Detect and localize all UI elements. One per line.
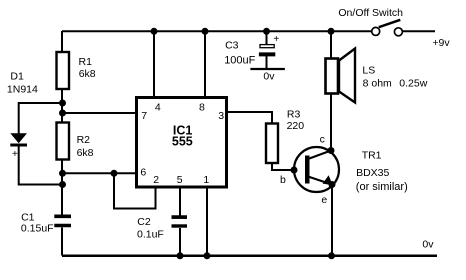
svg-text:0.25w: 0.25w: [399, 78, 427, 90]
svg-text:e: e: [321, 194, 327, 206]
svg-text:0.1uF: 0.1uF: [137, 229, 164, 241]
svg-text:0v: 0v: [263, 71, 275, 83]
svg-text:6k8: 6k8: [77, 147, 94, 159]
svg-text:+9v: +9v: [432, 37, 450, 49]
svg-text:LS: LS: [362, 65, 375, 77]
svg-text:1: 1: [203, 174, 209, 186]
svg-text:D1: D1: [10, 71, 24, 83]
svg-text:On/Off Switch: On/Off Switch: [338, 7, 403, 19]
svg-text:+: +: [273, 34, 279, 45]
svg-text:R1: R1: [79, 56, 93, 68]
svg-text:5: 5: [177, 174, 183, 186]
svg-text:8: 8: [199, 102, 205, 114]
svg-text:C3: C3: [225, 40, 239, 52]
svg-text:+: +: [12, 149, 18, 160]
svg-text:6k8: 6k8: [79, 68, 96, 80]
svg-text:b: b: [280, 174, 286, 186]
svg-text:R3: R3: [287, 109, 301, 121]
svg-text:(or similar): (or similar): [356, 181, 408, 193]
svg-text:2: 2: [153, 174, 159, 186]
svg-text:555: 555: [172, 135, 193, 149]
svg-text:3: 3: [218, 110, 224, 122]
svg-text:4: 4: [155, 102, 161, 114]
svg-text:0v: 0v: [422, 239, 434, 251]
svg-text:0.15uF: 0.15uF: [21, 223, 54, 235]
svg-text:8 ohm: 8 ohm: [363, 78, 392, 90]
svg-text:100uF: 100uF: [224, 55, 255, 67]
svg-text:C2: C2: [137, 216, 151, 228]
svg-text:TR1: TR1: [362, 150, 382, 162]
svg-text:BDX35: BDX35: [356, 167, 389, 179]
svg-text:7: 7: [141, 110, 147, 122]
svg-text:220: 220: [287, 120, 305, 132]
svg-text:R2: R2: [77, 134, 91, 146]
svg-text:6: 6: [140, 167, 146, 179]
svg-text:1N914: 1N914: [7, 84, 38, 96]
svg-text:c: c: [320, 134, 325, 146]
